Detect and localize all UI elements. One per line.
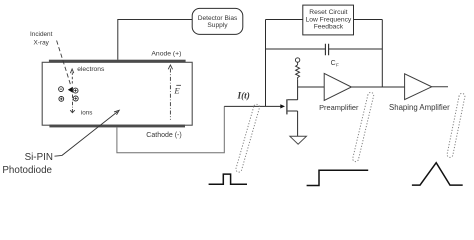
cathode plate (bottom contact) [49,125,185,128]
wire: reset box left [266,19,303,21]
leader line from Si-PIN label into diode [55,110,120,156]
waveform: preamplifier output step [307,170,369,185]
svg-text:Reset Circuit: Reset Circuit [309,9,347,16]
wire: resistor to FET drain [297,79,299,100]
callout capsule 2 (preamp step) [353,92,374,161]
waveform: detector current pulse [209,174,247,184]
E-field dash-dot arrow [168,65,172,120]
svg-text:Si-PIN: Si-PIN [25,152,53,163]
wire: preamplifier output to shaping amplifier [351,86,404,88]
svg-text:F: F [336,63,339,68]
callout capsule 1 (detector current) [236,104,260,172]
svg-text:Feedback: Feedback [314,24,344,31]
wire: reset box right [354,19,383,21]
electrons drift dashed arrow [70,69,73,84]
op-amp shaping amplifier [405,74,432,100]
svg-text:X-ray: X-ray [34,40,50,47]
svg-text:C: C [331,60,336,67]
svg-text:Preamplifier: Preamplifier [319,103,359,112]
svg-text:ions: ions [81,109,93,116]
svg-text:Anode (+): Anode (+) [151,51,181,58]
svg-text:Low Frequency: Low Frequency [306,16,352,23]
svg-text:Photodiode: Photodiode [2,165,52,176]
wire: input node to FET gate with current arrow [224,104,285,108]
reset circuit box [303,5,354,35]
wire: FET source to ground [297,111,299,136]
wire: drain node to preamplifier input [298,86,325,88]
ion symbol (circled plus) bottom-right [73,96,78,101]
svg-text:I(t): I(t) [237,90,250,100]
drain resistor terminal circle [295,58,299,62]
photodiode body outline [42,62,192,125]
electron symbol (circled minus) top-left [59,87,64,92]
FET Q1 [287,99,298,114]
ion symbol (circled plus) top-right [73,88,78,93]
anode plate (top contact) [49,60,186,63]
wire: bias supply to anode [118,20,192,60]
capacitor Cf wires [266,48,383,50]
svg-text:Cathode (-): Cathode (-) [146,132,181,139]
ground [290,136,307,144]
capacitor Cf plates [325,44,328,56]
ions drift dash-dot arrow [70,95,75,113]
detector bias supply box [192,8,243,34]
label E vector [173,85,181,95]
svg-text:Shaping Amplifier: Shaping Amplifier [389,103,450,112]
svg-text:Supply: Supply [207,22,228,29]
feedback vertical wire (output side) [381,20,383,88]
svg-text:Incident: Incident [30,31,53,38]
svg-text:electrons: electrons [77,66,105,73]
svg-text:E: E [173,86,180,96]
x-ray interaction arrowhead [68,87,73,93]
waveform: shaped output pulse [412,163,463,185]
incident x-ray dashed trajectory [57,41,71,86]
callout capsule 3 (shaped pulse) [447,93,465,157]
op-amp preamplifier [324,73,351,100]
wire: shaping amplifier output [432,86,448,88]
electron symbol (circled plus) bottom-left [59,97,64,102]
label Incident X-ray [30,31,53,47]
node/feedback vertical wire (input side) [265,20,267,107]
resistor (drain load) [296,62,300,79]
wire: cathode to input node (gray) [117,106,224,152]
label Si-PIN Photodiode [2,152,53,176]
label Cf [331,60,339,68]
